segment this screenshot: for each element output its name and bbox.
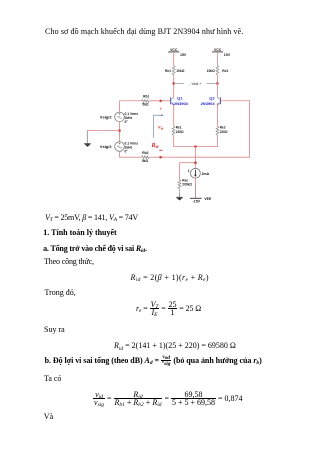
svg-text:1: 1 bbox=[188, 169, 190, 173]
wire VCC-left to Rc1 bbox=[173, 52, 175, 65]
resistor Rc2 bbox=[207, 65, 229, 75]
svg-text:10kΩ: 10kΩ bbox=[176, 69, 185, 73]
power VEE bbox=[190, 197, 212, 204]
wire current source to VEE bbox=[194, 178, 196, 185]
power VCC (right) bbox=[212, 48, 231, 57]
voltage source V2 bbox=[100, 141, 138, 153]
svg-text:vid: vid bbox=[158, 124, 163, 130]
svg-text:5kΩ: 5kΩ bbox=[142, 103, 149, 107]
svg-text:VEE: VEE bbox=[204, 197, 212, 201]
node collector Q1 bbox=[172, 82, 175, 85]
svg-text:0°: 0° bbox=[125, 120, 129, 124]
wire Rb1 to Q1 base bbox=[150, 100, 161, 102]
wire Ree to ground bbox=[179, 190, 181, 194]
svg-text:0°: 0° bbox=[125, 150, 129, 154]
node base Q1 bbox=[159, 100, 162, 103]
transistor Q1 bbox=[171, 95, 189, 106]
svg-text:15V: 15V bbox=[224, 53, 231, 57]
resistor Ree bbox=[178, 179, 192, 190]
wire Re1 to emitter rail bbox=[173, 136, 175, 147]
voltage source V1 bbox=[100, 112, 138, 124]
svg-text:Rc2: Rc2 bbox=[222, 69, 228, 73]
svg-text:15V: 15V bbox=[180, 53, 187, 57]
svg-text:Q1: Q1 bbox=[177, 95, 183, 100]
node Ree branch bbox=[194, 161, 197, 164]
transistor Q2 bbox=[201, 95, 221, 106]
wire Re2 to emitter rail bbox=[216, 136, 218, 147]
annotation vid minus bbox=[159, 149, 162, 151]
svg-text:- Vod +: - Vod + bbox=[189, 82, 202, 86]
svg-text:Rb2: Rb2 bbox=[142, 151, 148, 155]
given values line bbox=[45, 213, 138, 222]
node emitter rail center bbox=[194, 145, 197, 148]
wire emitter rail bbox=[173, 146, 218, 148]
wire rail to current source bbox=[194, 147, 196, 169]
wire V2 bottom to Rb2 bbox=[120, 151, 142, 157]
ground (left) bbox=[84, 144, 91, 147]
svg-text:Rc1: Rc1 bbox=[165, 69, 171, 73]
heading b bbox=[45, 356, 262, 366]
resistor Rb1 bbox=[142, 95, 150, 107]
wire Rc1 to Q1 collector bbox=[173, 76, 175, 98]
svg-text:Vsig/2: Vsig/2 bbox=[100, 144, 113, 149]
wire Ree branch bbox=[180, 163, 196, 180]
equation 3 bbox=[114, 341, 236, 350]
node collector Q2 bbox=[216, 82, 219, 85]
node on base wire bbox=[159, 156, 162, 159]
resistor Re1 bbox=[172, 126, 184, 136]
svg-text:2mA: 2mA bbox=[202, 172, 210, 176]
equation 1 bbox=[131, 273, 209, 282]
equation 2 (fractions) bbox=[136, 301, 201, 316]
resistor Re2 bbox=[216, 126, 228, 136]
svg-text:VCC: VCC bbox=[170, 48, 178, 52]
wire emitter Q2 to Re2 bbox=[216, 105, 218, 127]
svg-text:Rid: Rid bbox=[151, 143, 159, 149]
problem statement line bbox=[45, 27, 243, 36]
wire V1 top to Rb1 bbox=[120, 101, 142, 112]
svg-text:+: + bbox=[159, 106, 162, 112]
svg-text:2N3904: 2N3904 bbox=[174, 101, 189, 106]
current source I1 bbox=[188, 168, 210, 178]
ground (under Ree) bbox=[176, 197, 183, 200]
wire base Q1 bbox=[161, 100, 171, 102]
resistor Rc1 bbox=[165, 65, 185, 75]
power VCC (left) bbox=[168, 48, 187, 57]
svg-text:2N3904: 2N3904 bbox=[201, 101, 216, 106]
svg-text:10kΩ: 10kΩ bbox=[207, 69, 216, 73]
Vod label with stubs bbox=[174, 82, 218, 86]
wire VCC-right to Rc2 bbox=[216, 52, 218, 65]
wire Rb2 to Q2 base (loop) bbox=[150, 101, 250, 157]
svg-text:Q2: Q2 bbox=[209, 95, 215, 100]
svg-text:-15V: -15V bbox=[193, 199, 201, 203]
svg-text:5kΩ: 5kΩ bbox=[142, 159, 149, 163]
resistor Rb2 bbox=[142, 151, 150, 163]
svg-text:220Ω: 220Ω bbox=[176, 130, 184, 134]
svg-text:220Ω: 220Ω bbox=[220, 130, 228, 134]
heading 1 bbox=[43, 228, 116, 237]
wire emitter Q1 to Re1 bbox=[173, 105, 175, 127]
wire to ground (left) bbox=[87, 130, 119, 132]
heading a bbox=[43, 244, 147, 253]
wire between sources bbox=[119, 122, 121, 142]
svg-text:200kΩ: 200kΩ bbox=[182, 183, 192, 187]
wire Rc2 to Q2 collector bbox=[216, 76, 218, 98]
svg-text:VCC: VCC bbox=[214, 48, 222, 52]
equation 4 (fractions) bbox=[93, 391, 243, 406]
annotation Rid pointer arrow bbox=[154, 114, 164, 138]
svg-text:Rb1: Rb1 bbox=[143, 95, 149, 99]
node source midpoint bbox=[118, 129, 121, 132]
svg-text:Vsig/2: Vsig/2 bbox=[100, 114, 113, 119]
